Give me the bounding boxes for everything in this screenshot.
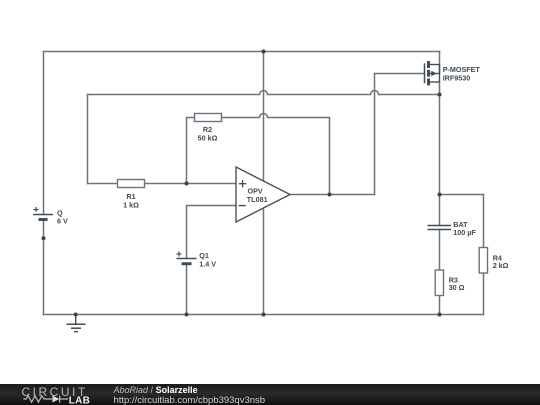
wire R2 left lead down to node A (187, 118, 195, 184)
wire R1 left lead (88, 183, 118, 185)
footer title line (114, 386, 198, 395)
svg-text:1 kΩ: 1 kΩ (123, 201, 139, 210)
node drain / R4 branch (438, 193, 442, 197)
wire mosfet source from top rail (439, 52, 441, 74)
resistor R3 (435, 270, 464, 296)
wire R3 bottom lead (439, 296, 441, 315)
svg-text:TL081: TL081 (247, 195, 268, 204)
wire R4 bottom lead (483, 273, 485, 315)
svg-text:30 Ω: 30 Ω (449, 283, 465, 292)
node top rail / V+ (262, 50, 266, 54)
wire BAT top lead (439, 195, 441, 226)
node on Q bottom lead (42, 236, 46, 240)
node V- / bottom rail (262, 313, 266, 317)
svg-text:50 kΩ: 50 kΩ (198, 134, 218, 143)
transistor P-MOSFET IRF9530 (425, 61, 481, 85)
wire feedback rail y=94.5 with hops (88, 91, 440, 95)
wire top rail (44, 51, 440, 53)
node R3 / bottom rail (438, 313, 442, 317)
wire left vertical lower (Q bottom lead) (43, 221, 45, 315)
wire op-amp V+ pin (263, 52, 265, 182)
node A : R1/R2/+input (185, 182, 189, 186)
resistor R1 (118, 180, 145, 210)
wire R1 right lead to op-amp + input (145, 183, 237, 185)
capacitor BAT 100uF (428, 220, 477, 237)
wire left vertical upper (Q top lead) (43, 52, 45, 215)
svg-text:LAB: LAB (69, 396, 90, 405)
wire op-amp inverting input to Q1 (187, 206, 237, 259)
resistor R4 (479, 248, 508, 274)
wire Q1 bottom lead (186, 264, 188, 315)
resistor R2 (195, 114, 222, 143)
op-amp U1 OPV TL081 (236, 167, 290, 222)
node Q1 / bottom rail (185, 313, 189, 317)
wire BAT to R3 (439, 230, 441, 271)
wire branch down to R1 (87, 95, 89, 184)
node output / R2 (328, 193, 332, 197)
wire gate vertical (374, 74, 376, 195)
node feedback rail / drain (438, 93, 442, 97)
svg-text:1.4 V: 1.4 V (199, 260, 216, 269)
CircuitLab logo (0, 384, 110, 405)
wire mosfet drain down (439, 82, 441, 195)
svg-text:IRF9530: IRF9530 (443, 73, 471, 82)
ground (67, 315, 86, 332)
svg-text:6 V: 6 V (57, 217, 68, 226)
wire op-amp output (290, 194, 375, 196)
wire gate lead (375, 73, 425, 75)
wire R2 right lead with hop, down to output (222, 114, 330, 195)
footer url line (114, 396, 266, 405)
battery Q1 (1.4V reference) (177, 251, 217, 269)
svg-text:100 µF: 100 µF (453, 228, 476, 237)
wire to R4 (440, 195, 484, 248)
battery Q (solar cell 6V) (33, 207, 68, 226)
wire bottom rail (44, 314, 484, 316)
node ground junction (74, 313, 78, 317)
wire op-amp V- pin (263, 208, 265, 315)
svg-text:2 kΩ: 2 kΩ (493, 261, 509, 270)
